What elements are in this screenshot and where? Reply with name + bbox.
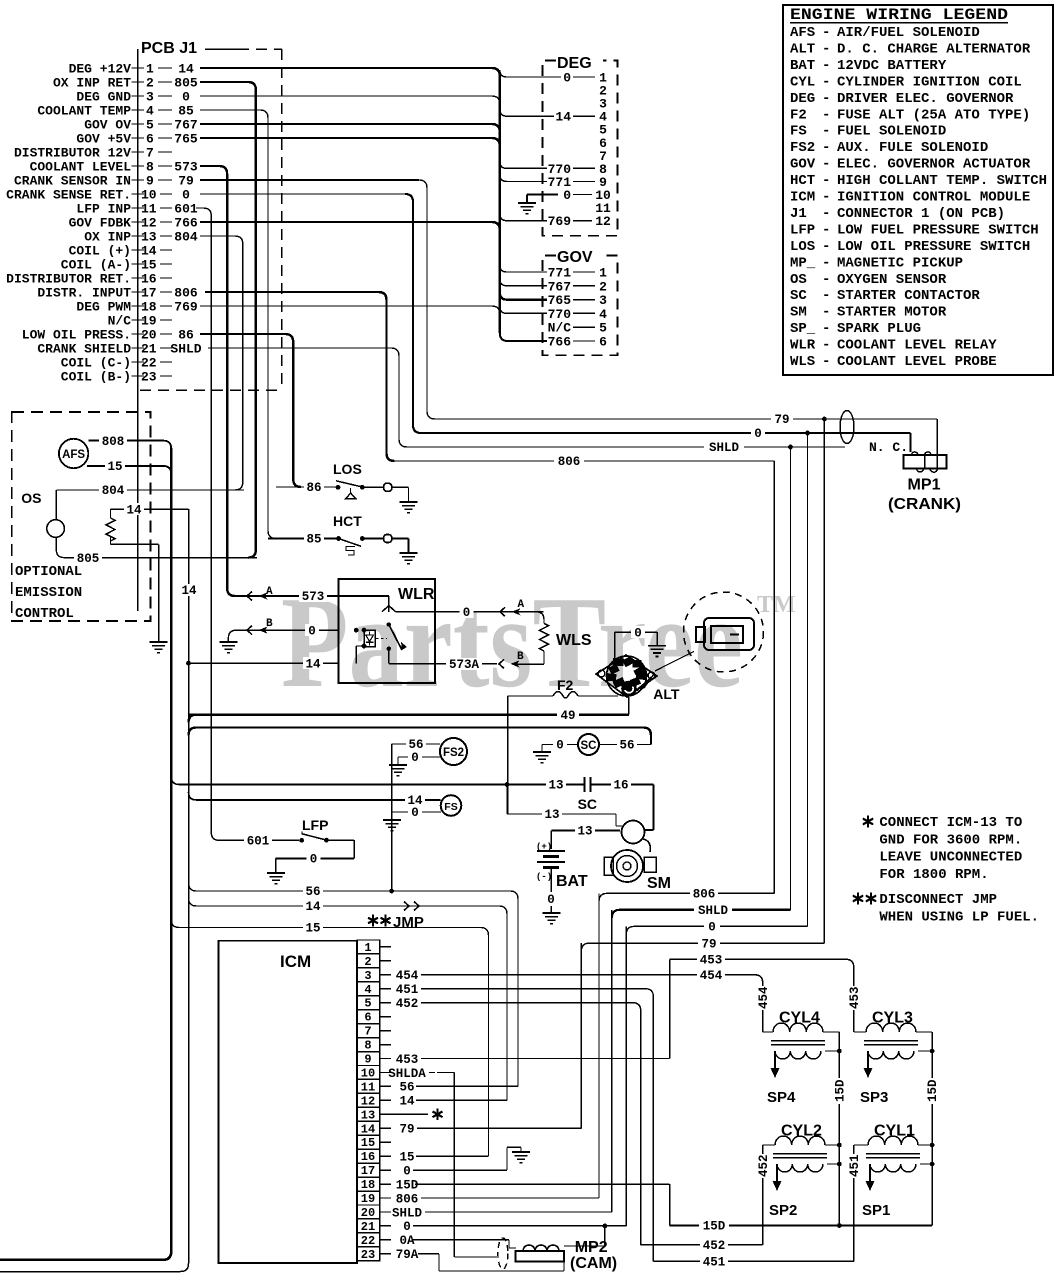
connector GOV	[543, 256, 618, 356]
svg-text:770: 770	[548, 307, 572, 322]
wire 806 J1-17 down	[205, 292, 395, 461]
svg-text:804: 804	[102, 484, 125, 498]
ICM pin 22	[357, 1233, 380, 1247]
svg-text:-: -	[822, 173, 830, 189]
svg-text:DISTRIBUTOR RET.: DISTRIBUTOR RET.	[6, 272, 131, 287]
wire 808	[88, 441, 171, 449]
svg-text:FS: FS	[790, 124, 807, 140]
wire 573A out of WLR	[389, 663, 435, 665]
svg-text:20: 20	[141, 328, 157, 343]
svg-text:453: 453	[700, 954, 723, 968]
svg-text:COOLANT LEVEL: COOLANT LEVEL	[30, 160, 132, 175]
WLR dashed link	[376, 638, 387, 640]
svg-text:-: -	[822, 91, 830, 107]
svg-text:OX INP RET: OX INP RET	[53, 76, 131, 91]
svg-text:ALT: ALT	[790, 41, 815, 57]
svg-text:ALT: ALT	[653, 686, 680, 702]
svg-text:F2: F2	[790, 107, 807, 123]
svg-text:2: 2	[599, 279, 607, 294]
svg-text:12: 12	[141, 216, 157, 231]
ICM pin 8	[357, 1038, 380, 1052]
battery BAT	[537, 850, 565, 852]
wire 0 DEG-1	[500, 70, 561, 77]
svg-text:SHLD: SHLD	[709, 441, 740, 455]
svg-text:12VDC BATTERY: 12VDC BATTERY	[837, 58, 947, 74]
svg-text:804: 804	[174, 230, 198, 245]
wire SHLD down to ICM-20	[611, 910, 613, 1212]
svg-text:767: 767	[548, 279, 571, 294]
svg-text:805: 805	[77, 552, 100, 566]
svg-text:21: 21	[141, 342, 157, 357]
svg-text:18: 18	[361, 1178, 375, 1192]
svg-text:8: 8	[146, 160, 154, 175]
svg-text:ICM: ICM	[790, 190, 815, 206]
wire 0 down to ICM-21	[625, 926, 627, 1226]
svg-text:AUX. FULE SOLENOID: AUX. FULE SOLENOID	[837, 140, 988, 156]
svg-text:SP1: SP1	[862, 1202, 890, 1219]
svg-text:765: 765	[548, 293, 572, 308]
svg-text:OX INP: OX INP	[84, 230, 131, 245]
wire 806 row	[599, 893, 774, 901]
svg-text:MP_: MP_	[790, 255, 816, 271]
wire 79 J1-9 down	[200, 179, 419, 181]
svg-text:DEG +12V: DEG +12V	[69, 62, 132, 77]
note star connect ICM-13	[867, 816, 869, 828]
WLR switch	[339, 595, 389, 597]
svg-text:79A: 79A	[396, 1248, 419, 1262]
svg-text:-: -	[822, 107, 830, 123]
probe WLS	[522, 612, 544, 624]
svg-text:LOW OIL PRESSURE SWITCH: LOW OIL PRESSURE SWITCH	[837, 239, 1030, 255]
svg-text:452: 452	[757, 1154, 771, 1177]
ICM pin 21	[357, 1219, 380, 1233]
wire 451 vertical to CYL1	[853, 1145, 855, 1261]
svg-text:15D: 15D	[396, 1178, 419, 1192]
svg-text:766: 766	[548, 335, 572, 350]
svg-text:LEAVE UNCONNECTED: LEAVE UNCONNECTED	[879, 850, 1022, 866]
svg-text:HCT: HCT	[790, 173, 815, 189]
svg-text:BAT: BAT	[556, 873, 588, 890]
wire 0 with connector B	[228, 630, 339, 642]
ICM pin 17	[357, 1163, 380, 1177]
wire 79A ICM-23 to MP2	[418, 1253, 439, 1255]
svg-text:OS: OS	[21, 490, 41, 506]
svg-text:CRANK SHIELD: CRANK SHIELD	[37, 342, 131, 357]
svg-text:14: 14	[305, 900, 321, 914]
svg-text:0: 0	[556, 739, 564, 753]
svg-text:22: 22	[361, 1234, 375, 1248]
svg-text:WLS: WLS	[790, 354, 815, 370]
svg-text:SHLDA: SHLDA	[388, 1067, 426, 1081]
svg-text:COIL (A-): COIL (A-)	[61, 258, 131, 273]
svg-text:767: 767	[174, 118, 197, 133]
magnetic pickup MP1	[904, 455, 947, 469]
wire 15D ICM-18	[415, 1183, 670, 1185]
svg-text:15: 15	[141, 258, 157, 273]
wire 0 row to MP1	[419, 432, 911, 434]
ICM pin 6	[357, 1010, 380, 1024]
svg-text:0: 0	[754, 427, 762, 441]
wire 0 J1-3 to bus	[200, 96, 500, 104]
ground	[400, 501, 418, 503]
svg-text:0: 0	[411, 806, 419, 820]
svg-text:DEG PWM: DEG PWM	[76, 300, 131, 315]
ICM pin 1	[357, 940, 380, 954]
svg-text:18: 18	[141, 300, 157, 315]
wire SHLD J1-21 down	[208, 348, 407, 447]
svg-text:JMP: JMP	[393, 914, 424, 931]
svg-text:AFS: AFS	[790, 25, 815, 41]
svg-text:N/C: N/C	[548, 321, 572, 336]
svg-text:SP3: SP3	[860, 1089, 888, 1106]
svg-text:0: 0	[708, 921, 716, 935]
svg-text:ICM: ICM	[280, 952, 311, 971]
svg-text:771: 771	[548, 266, 572, 281]
ignition coil CYL4	[773, 1023, 823, 1032]
svg-text:6: 6	[599, 335, 607, 350]
svg-text:573A: 573A	[449, 658, 480, 672]
svg-text:4: 4	[364, 983, 371, 997]
wire 56 FS2	[392, 743, 440, 745]
svg-text:601: 601	[174, 202, 198, 217]
wire 770 DEG-8	[500, 161, 547, 168]
ICM pin 7	[357, 1024, 380, 1038]
wire SHLD ICM-20	[428, 1211, 612, 1213]
svg-text:453: 453	[396, 1053, 419, 1067]
svg-text:15D: 15D	[833, 1079, 847, 1102]
wire 14 J1-1 to bus	[200, 68, 500, 76]
svg-text:451: 451	[848, 1154, 862, 1177]
svg-text:SP2: SP2	[769, 1202, 797, 1219]
wire 15 ICM-16 horizontal	[416, 1155, 489, 1157]
svg-text:LOW OIL PRESS.: LOW OIL PRESS.	[22, 328, 131, 343]
wire 805 row	[56, 537, 257, 557]
svg-text:FS: FS	[444, 801, 457, 813]
svg-text:454: 454	[700, 969, 723, 983]
wire 0 ALT to ground	[614, 632, 616, 661]
svg-text:GND FOR 3600 RPM.: GND FOR 3600 RPM.	[879, 832, 1022, 848]
ground at DEG-10	[527, 193, 558, 195]
svg-text:-: -	[822, 190, 830, 206]
svg-text:CYLINDER IGNITION COIL: CYLINDER IGNITION COIL	[837, 74, 1022, 90]
ground	[150, 641, 168, 643]
ground	[383, 819, 401, 821]
svg-text:16: 16	[141, 272, 157, 287]
svg-text:A: A	[266, 586, 273, 598]
svg-text:769: 769	[548, 214, 572, 229]
svg-text:AIR/FUEL SOLENOID: AIR/FUEL SOLENOID	[837, 25, 980, 41]
svg-text:IGNITION CONTROL MODULE: IGNITION CONTROL MODULE	[837, 190, 1030, 206]
svg-text:22: 22	[141, 356, 157, 371]
wire 451 bottom row	[653, 1260, 853, 1262]
svg-text:AFS: AFS	[62, 449, 85, 461]
svg-text:23: 23	[361, 1248, 375, 1262]
wire 15	[87, 466, 171, 474]
svg-text:SPARK PLUG: SPARK PLUG	[837, 321, 921, 337]
wire 13 branch to SM solenoid	[506, 785, 508, 815]
svg-text:ENGINE WIRING LEGEND: ENGINE WIRING LEGEND	[790, 6, 1008, 24]
svg-text:OS: OS	[790, 272, 807, 288]
wire 86 J1-20 down	[200, 334, 301, 487]
bus wire J1 to DEG/GOV	[499, 76, 501, 333]
svg-text:COIL (+): COIL (+)	[69, 244, 131, 259]
svg-text:806: 806	[174, 286, 198, 301]
svg-text:CRANK SENSOR IN: CRANK SENSOR IN	[14, 174, 131, 189]
wire 15D vertical CYL4/CYL2	[838, 1032, 840, 1226]
svg-text:4: 4	[146, 104, 154, 119]
ICM pin 10	[357, 1066, 380, 1080]
svg-text:FS2: FS2	[790, 140, 815, 156]
svg-text:DEG: DEG	[557, 55, 592, 72]
wire 14 to WLR	[189, 662, 340, 664]
wire 573 J1-8 down	[200, 166, 235, 596]
svg-text:CONNECTOR 1 (ON PCB): CONNECTOR 1 (ON PCB)	[837, 206, 1005, 222]
svg-text:452: 452	[396, 997, 419, 1011]
wire 0 ICM-17 horizontal	[414, 1169, 507, 1171]
svg-text:5: 5	[599, 321, 607, 336]
ground	[389, 764, 407, 766]
svg-text:0: 0	[634, 626, 642, 640]
svg-text:11: 11	[141, 202, 157, 217]
wire 15D vertical CYL3/CYL1	[931, 1032, 933, 1226]
svg-text:16: 16	[361, 1150, 375, 1164]
svg-text:17: 17	[141, 286, 157, 301]
ICM pin 11	[357, 1079, 380, 1093]
svg-text:2: 2	[364, 955, 371, 969]
svg-text:56: 56	[408, 738, 423, 752]
svg-text:808: 808	[102, 435, 125, 449]
ground	[400, 552, 418, 554]
wire 0 FS2 to ground	[398, 756, 441, 758]
dashed box OPTIONAL EMISSION CONTROL	[12, 412, 151, 621]
contactor coil SC	[542, 744, 578, 746]
svg-text:HIGH COLLANT TEMP. SWITCH: HIGH COLLANT TEMP. SWITCH	[837, 173, 1047, 189]
svg-text:WLS: WLS	[556, 632, 592, 649]
svg-text:9: 9	[146, 174, 154, 189]
svg-text:FS2: FS2	[443, 747, 464, 759]
wire 14 to FS	[189, 792, 441, 800]
svg-text:15D: 15D	[926, 1079, 940, 1102]
svg-text:MP1: MP1	[908, 477, 941, 494]
wire 79 row to MP1	[433, 418, 937, 420]
wire 769 DEG-12	[500, 214, 547, 221]
svg-text:10: 10	[361, 1066, 375, 1080]
svg-text:SP4: SP4	[767, 1089, 796, 1106]
svg-text:12: 12	[361, 1094, 375, 1108]
ground	[648, 645, 666, 647]
svg-text:0: 0	[310, 853, 318, 867]
svg-text:8: 8	[364, 1039, 371, 1053]
ignition coil CYL2	[775, 1136, 825, 1145]
contactor SC contact	[584, 777, 586, 792]
svg-text:WLR: WLR	[398, 586, 435, 603]
svg-text:56: 56	[305, 885, 320, 899]
svg-text:SM: SM	[790, 305, 807, 321]
svg-text:17: 17	[361, 1164, 375, 1178]
spark plug arrow SP3	[867, 1051, 869, 1068]
svg-text:-: -	[822, 140, 830, 156]
svg-text:0: 0	[547, 893, 555, 907]
svg-text:-: -	[822, 58, 830, 74]
svg-text:MAGNETIC PICKUP: MAGNETIC PICKUP	[837, 255, 963, 271]
svg-text:0: 0	[403, 1220, 411, 1234]
svg-text:SHLD: SHLD	[170, 342, 201, 357]
svg-text:B: B	[266, 618, 273, 630]
svg-text:573: 573	[302, 590, 325, 604]
svg-text:LFP INP: LFP INP	[76, 202, 131, 217]
svg-text:13: 13	[544, 808, 559, 822]
svg-text:LFP: LFP	[302, 817, 328, 833]
svg-text:ELEC. GOVERNOR ACTUATOR: ELEC. GOVERNOR ACTUATOR	[837, 157, 1031, 173]
svg-text:CYL1: CYL1	[874, 1123, 915, 1140]
fuse feed wire F2 vertical	[507, 696, 509, 814]
svg-text:-: -	[822, 222, 830, 238]
wire 765 J1-6 to bus	[200, 138, 500, 146]
svg-text:7: 7	[364, 1025, 371, 1039]
wire 13 BAT to SM	[550, 831, 552, 850]
svg-text:(CAM): (CAM)	[570, 1255, 617, 1272]
ground	[512, 1151, 530, 1153]
svg-text:OXYGEN SENSOR: OXYGEN SENSOR	[837, 272, 947, 288]
wire 79 down to ICM-14	[580, 943, 582, 1128]
svg-text:(-): (-)	[536, 872, 552, 882]
wire * ICM-13	[380, 1113, 428, 1115]
svg-text:-: -	[822, 354, 830, 370]
svg-text:COOLANT LEVEL PROBE: COOLANT LEVEL PROBE	[837, 354, 997, 370]
svg-text:COOLANT TEMP: COOLANT TEMP	[37, 104, 131, 119]
wire 806 down to ICM-19	[598, 893, 600, 1198]
svg-text:-: -	[822, 25, 830, 41]
svg-text:765: 765	[174, 132, 198, 147]
wire 766 GOV-6	[507, 340, 547, 342]
svg-text:6: 6	[364, 1011, 371, 1025]
svg-text:0: 0	[308, 624, 316, 638]
svg-text:SC: SC	[790, 288, 807, 304]
spark plug arrow SP2	[776, 1164, 778, 1181]
svg-text:2: 2	[146, 76, 154, 91]
svg-text:14: 14	[178, 62, 194, 77]
svg-text:15: 15	[305, 922, 320, 936]
svg-text:4: 4	[599, 307, 607, 322]
svg-text:15: 15	[107, 460, 122, 474]
ignition coil CYL1	[868, 1136, 918, 1145]
starter motor SM	[622, 821, 645, 844]
svg-text:FUSE ALT (25A ATO TYPE): FUSE ALT (25A ATO TYPE)	[837, 107, 1030, 123]
svg-text:15: 15	[399, 1150, 414, 1164]
svg-text:19: 19	[361, 1192, 375, 1206]
svg-text:453: 453	[848, 986, 862, 1009]
legend box ENGINE WIRING LEGEND	[783, 5, 1053, 375]
alternator ALT	[596, 655, 657, 697]
svg-text:805: 805	[174, 76, 198, 91]
svg-text:B: B	[517, 651, 524, 663]
svg-text:CYL3: CYL3	[872, 1010, 913, 1027]
svg-text:6: 6	[146, 132, 154, 147]
svg-text:13: 13	[577, 825, 592, 839]
svg-text:86: 86	[306, 481, 321, 495]
svg-text:MP2: MP2	[575, 1239, 608, 1256]
wire 14 trunk vertical	[188, 509, 190, 1263]
svg-text:CRANK SENSE RET.: CRANK SENSE RET.	[6, 188, 131, 203]
svg-text:-: -	[822, 272, 830, 288]
connector DEG	[543, 61, 618, 236]
wire 573 with connector A	[233, 595, 339, 597]
wire 15 row to ICM-16	[171, 920, 488, 1157]
svg-text:D. C. CHARGE ALTERNATOR: D. C. CHARGE ALTERNATOR	[837, 41, 1031, 57]
ICM pin 14	[357, 1121, 380, 1135]
svg-text:GOV: GOV	[557, 249, 593, 266]
wire SHLD row	[612, 910, 791, 918]
wire 601 J1-11 down	[196, 208, 219, 840]
ICM pin 23	[357, 1247, 380, 1261]
svg-text:0: 0	[563, 71, 571, 86]
svg-text:GOV: GOV	[790, 157, 816, 173]
svg-text:454: 454	[396, 969, 419, 983]
wire 0 to WLS connector A	[460, 606, 474, 618]
wire 15D bottom row	[670, 1225, 933, 1227]
ground	[267, 872, 285, 874]
svg-text:0: 0	[563, 188, 571, 203]
svg-text:LOS: LOS	[790, 239, 815, 255]
wire 0A ICM-22 to MP2	[413, 1239, 509, 1241]
svg-text:STARTER MOTOR: STARTER MOTOR	[837, 305, 947, 321]
wire 804 J1-13 down	[200, 236, 243, 490]
ICM pin 18	[357, 1177, 380, 1191]
svg-text:-: -	[822, 239, 830, 255]
wire 0 ICM-17 to ground	[506, 1147, 508, 1170]
svg-text:14: 14	[141, 244, 157, 259]
trunk wire from AFS down	[170, 448, 173, 1252]
svg-text:79: 79	[399, 1123, 414, 1137]
svg-text:CYL2: CYL2	[781, 1123, 822, 1140]
wire 56 row to ICM-11	[189, 883, 519, 1086]
wire SHLD row to MP1 shield	[405, 446, 845, 448]
svg-text:20: 20	[361, 1206, 375, 1220]
svg-text:14: 14	[555, 110, 571, 125]
ignition coil CYL3	[866, 1023, 916, 1032]
svg-text:CYL4: CYL4	[779, 1010, 820, 1027]
wire 79 row	[581, 943, 824, 951]
wire to SC contactor coil	[189, 728, 652, 745]
svg-text:SHLD: SHLD	[698, 904, 729, 918]
ICM pin 12	[357, 1093, 380, 1107]
svg-text:LOS: LOS	[333, 461, 362, 477]
svg-text:-: -	[822, 288, 830, 304]
svg-text:10: 10	[141, 188, 157, 203]
svg-text:16: 16	[613, 779, 628, 793]
svg-text:766: 766	[174, 216, 198, 231]
svg-text:12: 12	[595, 214, 611, 229]
svg-text:DEG: DEG	[790, 91, 815, 107]
ICM pin 5	[357, 996, 380, 1010]
wire 0 J1-10 down	[200, 193, 405, 195]
svg-text:-: -	[822, 124, 830, 140]
ground	[533, 751, 551, 753]
wire 767 GOV-2	[500, 279, 547, 286]
svg-text:1: 1	[599, 266, 607, 281]
svg-text:0: 0	[182, 188, 190, 203]
wire 771 GOV-1	[500, 265, 547, 272]
svg-text:79: 79	[701, 937, 716, 951]
svg-text:13: 13	[548, 779, 563, 793]
svg-text:PCB J1: PCB J1	[141, 40, 197, 57]
svg-text:14: 14	[181, 584, 197, 598]
svg-text:A: A	[518, 599, 525, 611]
wire 14 row with JMP to ICM-12	[189, 898, 508, 1100]
svg-text:CONNECT ICM-13 TO: CONNECT ICM-13 TO	[879, 815, 1022, 831]
svg-text:23: 23	[141, 370, 157, 385]
solenoid FS2	[440, 738, 467, 765]
